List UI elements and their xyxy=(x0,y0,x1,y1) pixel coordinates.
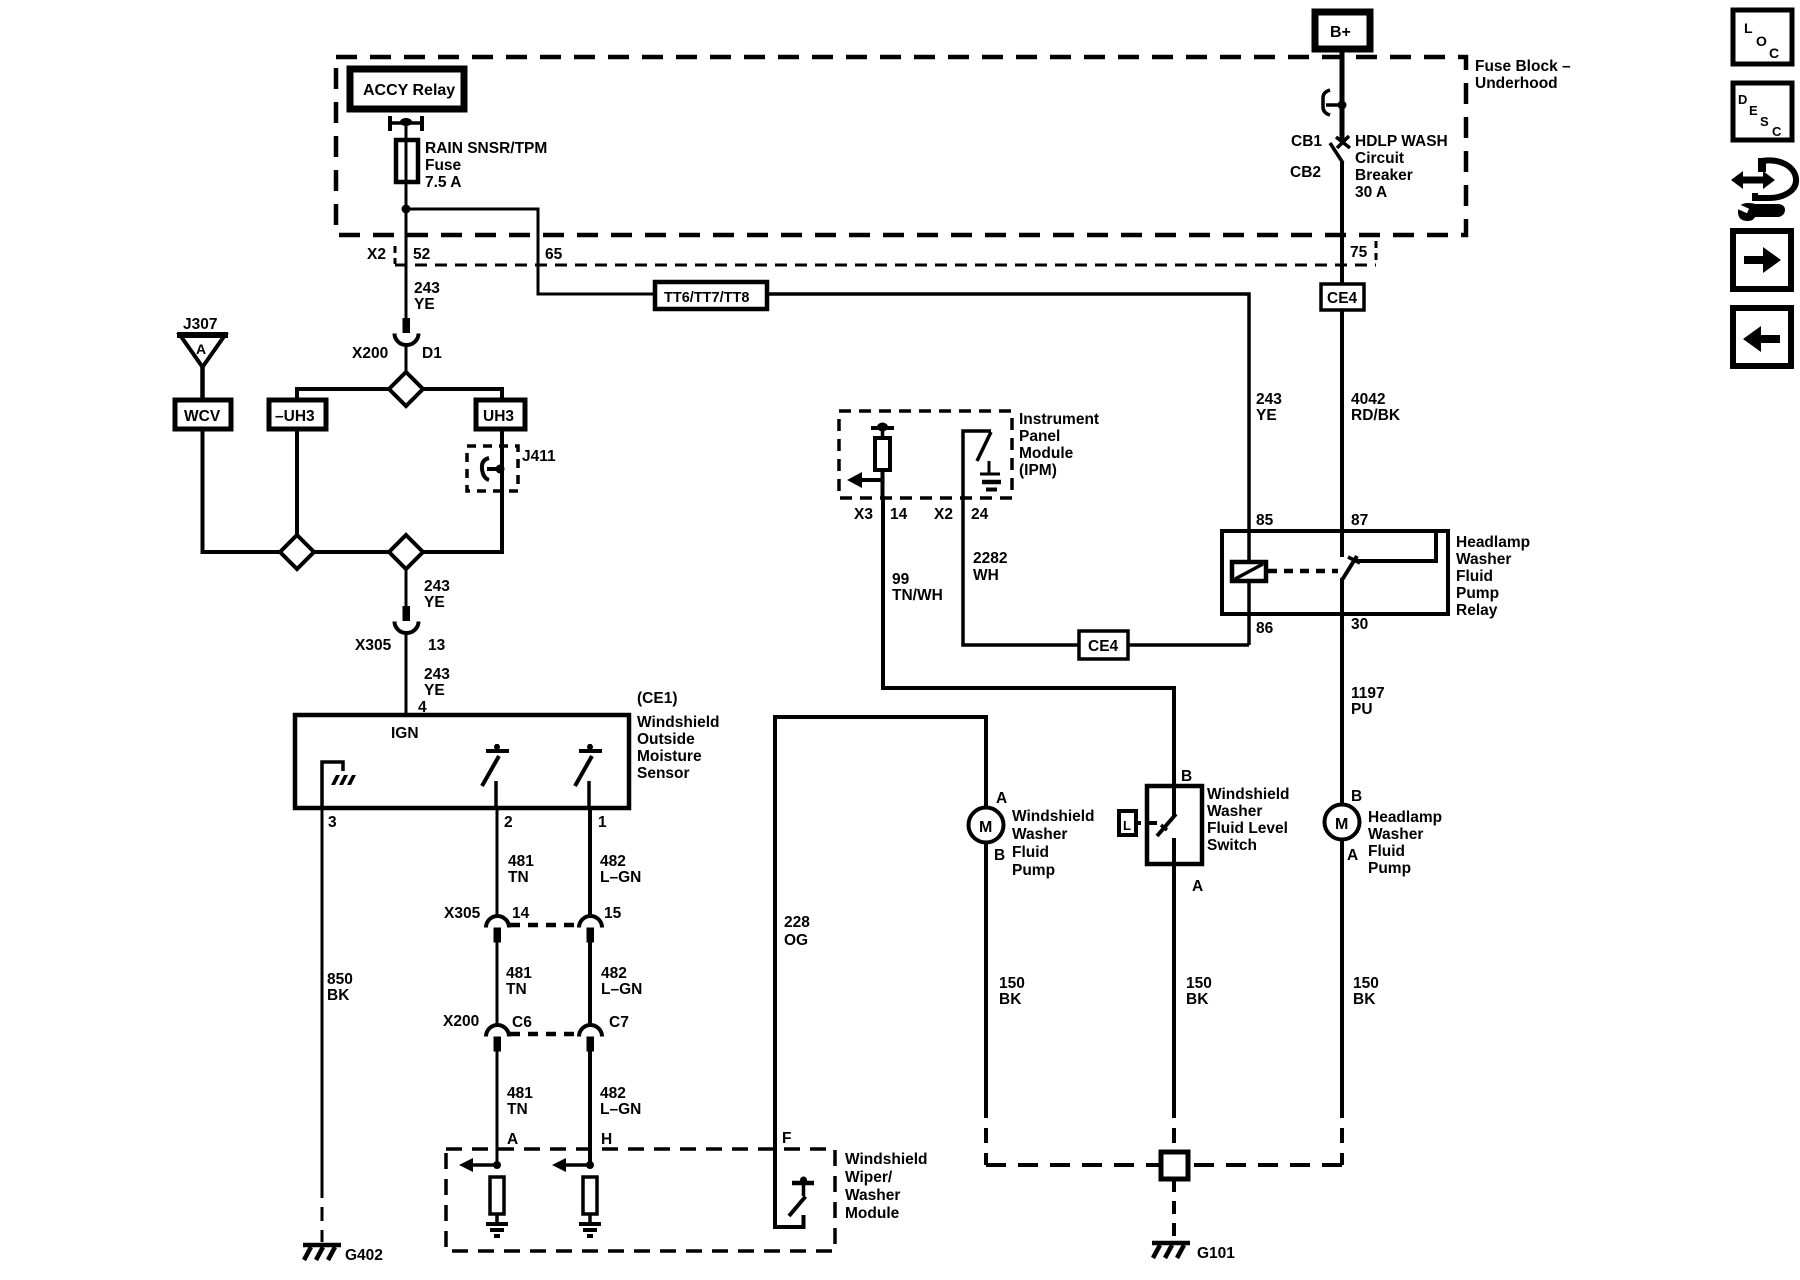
svg-text:99: 99 xyxy=(892,571,910,588)
svg-text:J411: J411 xyxy=(522,448,556,465)
svg-text:Fluid: Fluid xyxy=(1368,843,1405,860)
fuse block UH3 xyxy=(476,400,525,429)
IPM internal output arrow xyxy=(847,472,883,488)
IPM internal driver switch to ground xyxy=(963,431,1001,498)
inline connector X305 13 xyxy=(395,606,419,633)
module name label xyxy=(845,1151,928,1222)
svg-text:243: 243 xyxy=(424,578,450,595)
svg-text:482: 482 xyxy=(600,853,626,870)
svg-text:7.5 A: 7.5 A xyxy=(425,174,461,191)
svg-text:B+: B+ xyxy=(1330,24,1351,41)
svg-text:85: 85 xyxy=(1256,512,1274,529)
svg-text:A: A xyxy=(507,1131,518,1148)
IPM pin labels X3 14 X2 24 xyxy=(854,506,989,523)
svg-text:E: E xyxy=(1749,103,1758,118)
svg-text:CE4: CE4 xyxy=(1088,638,1119,655)
level switch internals xyxy=(1149,786,1176,864)
headlamp washer fluid pump relay box xyxy=(1222,531,1448,614)
wire label 243 YE middle xyxy=(1256,391,1282,424)
svg-text:B: B xyxy=(1181,768,1192,785)
connector X305 pair dashes xyxy=(510,923,578,928)
relay name label xyxy=(1456,534,1530,619)
svg-text:Sensor: Sensor xyxy=(637,765,690,782)
svg-text:Windshield: Windshield xyxy=(1207,786,1290,803)
wire relay pin 30 down xyxy=(1340,614,1344,805)
connector X200 pair dashes xyxy=(510,1032,578,1037)
connector X200 pin C7 xyxy=(579,1025,602,1052)
svg-text:30: 30 xyxy=(1351,616,1368,633)
svg-text:65: 65 xyxy=(545,246,563,263)
splice diamond top xyxy=(389,372,423,406)
icon prev-page left arrow box xyxy=(1733,308,1791,366)
svg-text:52: 52 xyxy=(413,246,430,263)
svg-text:UH3: UH3 xyxy=(483,408,514,425)
icon shortcut arrows and wrench xyxy=(1731,158,1796,221)
wire 2282 WH IPM X2-24 to CE4 xyxy=(963,498,1079,645)
wire 150 BK headlamp pump to ground xyxy=(1188,840,1379,1165)
wire label 243 YE below diamond xyxy=(424,578,450,611)
wire 481 TN middle xyxy=(497,942,532,1025)
svg-text:Pump: Pump xyxy=(1012,862,1055,879)
svg-text:13: 13 xyxy=(428,637,446,654)
svg-text:HDLP WASH: HDLP WASH xyxy=(1355,133,1448,150)
svg-text:481: 481 xyxy=(508,853,534,870)
ACCY Relay box xyxy=(350,69,464,109)
circuit breaker name HDLP WASH 30 A xyxy=(1355,133,1448,201)
wire junction to G101 xyxy=(1172,1179,1176,1240)
svg-text:Wiper/: Wiper/ xyxy=(845,1169,893,1186)
wire rail diamond to UH3 riser xyxy=(422,389,502,400)
relay coil to armature dashed link xyxy=(1268,569,1338,574)
svg-text:243: 243 xyxy=(414,280,440,297)
connector X200 pair labels xyxy=(443,1013,629,1031)
wire 482 L-GN sensor pin1 upper xyxy=(590,810,641,916)
wire TT6 to relay pin 85 xyxy=(767,294,1249,531)
svg-text:G101: G101 xyxy=(1197,1245,1235,1262)
windshield wiper washer module dashed box xyxy=(446,1149,835,1251)
svg-text:1197: 1197 xyxy=(1351,685,1385,702)
svg-text:482: 482 xyxy=(600,1085,626,1102)
svg-text:–UH3: –UH3 xyxy=(275,408,315,425)
splice pack TT6/TT7/TT8 xyxy=(655,282,767,309)
svg-text:481: 481 xyxy=(506,965,532,982)
level sensor L box xyxy=(1119,811,1141,835)
svg-text:O: O xyxy=(1756,33,1767,49)
svg-text:X305: X305 xyxy=(355,637,392,654)
svg-text:H: H xyxy=(601,1131,612,1148)
relay switch armature xyxy=(1342,531,1436,614)
svg-text:Outside: Outside xyxy=(637,731,695,748)
icon next-page right arrow box xyxy=(1733,231,1791,289)
svg-text:4042: 4042 xyxy=(1351,391,1385,408)
module internal F switch xyxy=(775,1149,814,1227)
svg-text:228: 228 xyxy=(784,914,810,931)
module pin labels A H F xyxy=(507,1130,791,1148)
svg-text:3: 3 xyxy=(328,814,337,831)
splice diamond lower-mid xyxy=(389,535,423,569)
svg-text:TT6/TT7/TT8: TT6/TT7/TT8 xyxy=(664,290,749,306)
svg-text:L: L xyxy=(1744,20,1753,36)
svg-text:WCV: WCV xyxy=(184,408,221,425)
wire 482 L-GN lower xyxy=(590,1051,641,1165)
svg-text:(CE1): (CE1) xyxy=(637,690,677,707)
svg-text:A: A xyxy=(996,790,1007,807)
svg-text:X2: X2 xyxy=(367,246,386,263)
svg-text:Fluid Level: Fluid Level xyxy=(1207,820,1288,837)
wire UH3 down through J411 xyxy=(423,429,502,552)
fuse RAIN SNSR/TPM 7.5 A xyxy=(396,140,418,182)
connector CE4 lower xyxy=(1079,631,1128,659)
wire relay contact to fuse xyxy=(405,123,408,140)
wire rail diamond to -UH3 riser xyxy=(297,389,390,400)
svg-text:481: 481 xyxy=(507,1085,533,1102)
fuse block underhood dashed box xyxy=(336,57,1466,235)
svg-text:30 A: 30 A xyxy=(1355,184,1387,201)
svg-text:Circuit: Circuit xyxy=(1355,150,1404,167)
svg-text:ACCY Relay: ACCY Relay xyxy=(363,82,455,99)
svg-text:Relay: Relay xyxy=(1456,602,1498,619)
ground G402 xyxy=(303,1245,383,1264)
connector CE4 top xyxy=(1321,265,1364,310)
svg-text:RAIN SNSR/TPM: RAIN SNSR/TPM xyxy=(425,140,547,157)
svg-text:L: L xyxy=(1123,818,1131,833)
IPM internal sensor element and resistor xyxy=(871,423,894,499)
wire fuse to junction xyxy=(405,182,408,265)
svg-text:PU: PU xyxy=(1351,701,1373,718)
svg-text:L–GN: L–GN xyxy=(600,1101,641,1118)
wire 481 TN lower xyxy=(497,1051,533,1165)
svg-text:A: A xyxy=(196,341,206,357)
svg-text:15: 15 xyxy=(604,905,622,922)
connector X305 pair labels xyxy=(444,905,622,922)
svg-text:14: 14 xyxy=(890,506,908,523)
wire 150 BK level switch to ground xyxy=(1174,864,1212,1152)
svg-text:B: B xyxy=(994,847,1005,864)
svg-text:2282: 2282 xyxy=(973,550,1007,567)
wire fuse branch through X2 pin 52 xyxy=(405,265,408,318)
svg-text:BK: BK xyxy=(327,987,350,1004)
svg-text:X2: X2 xyxy=(934,506,953,523)
svg-text:BK: BK xyxy=(1353,991,1376,1008)
svg-text:YE: YE xyxy=(424,682,445,699)
fuse label xyxy=(425,140,547,191)
svg-text:BK: BK xyxy=(999,991,1022,1008)
svg-text:TN/WH: TN/WH xyxy=(892,587,943,604)
svg-text:Fuse Block –: Fuse Block – xyxy=(1475,58,1571,75)
ground junction block xyxy=(1161,1152,1188,1179)
wire connector to splice diamond xyxy=(405,345,408,373)
wire rail between diamonds xyxy=(314,550,390,554)
svg-text:TN: TN xyxy=(507,1101,528,1118)
svg-text:Windshield: Windshield xyxy=(637,714,720,731)
circuit breaker labels xyxy=(1290,133,1322,181)
svg-text:M: M xyxy=(979,819,992,836)
svg-text:150: 150 xyxy=(999,975,1025,992)
fuse block -UH3 xyxy=(269,400,326,429)
svg-text:B: B xyxy=(1351,788,1362,805)
svg-text:Breaker: Breaker xyxy=(1355,167,1413,184)
svg-text:150: 150 xyxy=(1353,975,1379,992)
windshield outside moisture sensor box xyxy=(295,715,629,808)
svg-text:RD/BK: RD/BK xyxy=(1351,407,1401,424)
wire label 850 BK xyxy=(327,971,353,1004)
svg-text:Fluid: Fluid xyxy=(1012,844,1049,861)
wire diamond down to X305 xyxy=(405,569,408,606)
svg-text:850: 850 xyxy=(327,971,353,988)
svg-text:OG: OG xyxy=(784,932,808,949)
splice J307 triangle xyxy=(177,316,228,367)
svg-text:86: 86 xyxy=(1256,620,1274,637)
svg-text:2: 2 xyxy=(504,814,513,831)
module input A arrow and resistor to ground xyxy=(459,1158,508,1236)
svg-text:Washer: Washer xyxy=(1368,826,1423,843)
svg-text:A: A xyxy=(1192,878,1203,895)
wire 850 BK sensor pin3 to G402 xyxy=(321,810,324,1242)
circuit breaker blade xyxy=(1330,143,1343,163)
wire 228 OG washer pump to module F xyxy=(775,717,986,1149)
windshield washer fluid level switch box xyxy=(1147,786,1202,864)
icon LOC box xyxy=(1733,10,1792,64)
svg-text:G402: G402 xyxy=(345,1247,383,1264)
wire CE4 to relay pin 86 xyxy=(1128,614,1249,645)
svg-text:Washer: Washer xyxy=(845,1187,900,1204)
svg-text:14: 14 xyxy=(512,905,530,922)
wire 150 BK washer pump to ground xyxy=(986,843,1161,1165)
svg-text:Module: Module xyxy=(1019,445,1074,462)
svg-text:87: 87 xyxy=(1351,512,1368,529)
svg-text:482: 482 xyxy=(601,965,627,982)
splice diamond lower-left xyxy=(280,535,314,569)
svg-text:C7: C7 xyxy=(609,1014,629,1031)
ACCY relay contact symbol xyxy=(388,116,424,131)
svg-text:X200: X200 xyxy=(352,345,388,362)
headlamp washer fluid pump motor xyxy=(1325,805,1360,840)
svg-text:C: C xyxy=(1772,124,1782,139)
svg-text:YE: YE xyxy=(424,594,445,611)
svg-text:CE4: CE4 xyxy=(1327,290,1358,307)
circuit breaker CB1/CB2 thermal hook xyxy=(1323,90,1347,115)
module input H arrow and resistor to ground xyxy=(552,1158,601,1236)
svg-text:1: 1 xyxy=(598,814,607,831)
svg-text:Washer: Washer xyxy=(1207,803,1262,820)
battery terminal B+ xyxy=(1315,12,1370,49)
svg-text:Windshield: Windshield xyxy=(845,1151,928,1168)
washer pump name label xyxy=(1012,808,1095,879)
connector X2 labels xyxy=(367,244,1368,263)
svg-text:243: 243 xyxy=(424,666,450,683)
relay coil xyxy=(1232,531,1266,614)
connector X305 pin 15 xyxy=(579,916,602,943)
IPM name label xyxy=(1019,411,1099,479)
svg-text:CB1: CB1 xyxy=(1291,133,1322,150)
connector X200 D1 labels xyxy=(352,345,442,362)
svg-text:YE: YE xyxy=(1256,407,1277,424)
svg-text:Headlamp: Headlamp xyxy=(1368,809,1442,826)
connector X305 13 labels xyxy=(355,637,446,654)
svg-text:F: F xyxy=(782,1130,791,1147)
inline connector X200 D1 xyxy=(395,318,419,345)
svg-text:A: A xyxy=(1347,847,1358,864)
wire label 243 YE left xyxy=(414,280,440,313)
wire label 243 YE above sensor xyxy=(424,666,450,699)
svg-text:X305: X305 xyxy=(444,905,481,922)
svg-text:CB2: CB2 xyxy=(1290,164,1321,181)
pin 4 label xyxy=(418,699,427,716)
wire X305 to sensor pin 4 xyxy=(405,633,408,715)
sensor internal switch pin 2 xyxy=(482,744,509,810)
wire -UH3 down to diamond xyxy=(295,429,299,536)
svg-text:Module: Module xyxy=(845,1205,900,1222)
svg-text:Windshield: Windshield xyxy=(1012,808,1095,825)
svg-text:Fuse: Fuse xyxy=(425,157,462,174)
level switch name label xyxy=(1207,786,1290,854)
svg-text:Washer: Washer xyxy=(1456,551,1511,568)
wire CE4 to relay pin 87 xyxy=(1340,310,1344,531)
junction node below fuse xyxy=(402,205,411,214)
svg-text:Instrument: Instrument xyxy=(1019,411,1099,428)
windshield washer fluid pump motor xyxy=(969,808,1004,843)
svg-text:Pump: Pump xyxy=(1368,860,1411,877)
svg-text:X200: X200 xyxy=(443,1013,479,1030)
sensor internal ground elbow xyxy=(322,762,356,810)
wire breaker to CE4 pin 75 xyxy=(1340,162,1344,284)
svg-text:243: 243 xyxy=(1256,391,1282,408)
sensor name label xyxy=(637,690,720,782)
svg-text:24: 24 xyxy=(971,506,989,523)
wire 99 TN/WH IPM X3-14 to level switch B xyxy=(883,498,1174,786)
svg-text:IGN: IGN xyxy=(391,725,419,742)
svg-text:Panel: Panel xyxy=(1019,428,1060,445)
svg-text:S: S xyxy=(1760,114,1769,129)
level switch pin labels xyxy=(1181,768,1203,895)
instrument panel module IPM dashed box xyxy=(839,411,1012,498)
svg-text:75: 75 xyxy=(1350,244,1368,261)
svg-text:L–GN: L–GN xyxy=(600,869,641,886)
wire J307 to WCV xyxy=(200,367,205,400)
wire 482 L-GN middle xyxy=(590,942,642,1025)
connector X2 dashed line xyxy=(395,241,1376,265)
svg-text:D: D xyxy=(1738,92,1747,107)
wire label 4042 RD/BK xyxy=(1351,391,1401,424)
wire branch junction to pin 65 xyxy=(406,209,655,294)
svg-text:TN: TN xyxy=(506,981,527,998)
svg-text:M: M xyxy=(1335,816,1348,833)
svg-text:(IPM): (IPM) xyxy=(1019,462,1057,479)
svg-text:D1: D1 xyxy=(422,345,442,362)
svg-text:Moisture: Moisture xyxy=(637,748,702,765)
sensor internal switch pin 1 xyxy=(575,744,602,810)
svg-text:150: 150 xyxy=(1186,975,1212,992)
wire label 1197 PU xyxy=(1351,685,1385,718)
fuse block label xyxy=(1475,58,1571,92)
svg-text:Pump: Pump xyxy=(1456,585,1499,602)
svg-text:L–GN: L–GN xyxy=(601,981,642,998)
svg-text:C6: C6 xyxy=(512,1014,532,1031)
svg-text:Headlamp: Headlamp xyxy=(1456,534,1530,551)
connector X200 pin C6 xyxy=(486,1025,509,1052)
svg-text:J307: J307 xyxy=(183,316,217,333)
svg-text:BK: BK xyxy=(1186,991,1209,1008)
wire B+ to circuit breaker xyxy=(1340,49,1345,141)
circuit breaker contact star xyxy=(1336,136,1350,148)
svg-text:Fluid: Fluid xyxy=(1456,568,1493,585)
svg-text:WH: WH xyxy=(973,567,999,584)
ground G101 xyxy=(1152,1243,1235,1262)
svg-text:TN: TN xyxy=(508,869,529,886)
washer pump pin labels xyxy=(994,790,1007,864)
sensor pin labels xyxy=(328,814,607,831)
headlamp pump pin labels xyxy=(1347,788,1362,864)
svg-text:Switch: Switch xyxy=(1207,837,1257,854)
icon DESC box xyxy=(1733,83,1792,140)
relay pin labels xyxy=(1256,512,1368,637)
splice J411 dashed box xyxy=(467,446,556,491)
svg-text:C: C xyxy=(1769,45,1779,61)
svg-text:X3: X3 xyxy=(854,506,873,523)
svg-text:Washer: Washer xyxy=(1012,826,1067,843)
connector X305 pin 14 xyxy=(486,916,509,943)
headlamp pump name label xyxy=(1368,809,1442,877)
svg-text:YE: YE xyxy=(414,296,435,313)
wire WCV down to rail xyxy=(203,429,282,552)
svg-text:Underhood: Underhood xyxy=(1475,75,1558,92)
fuse block WCV xyxy=(175,400,231,429)
wire 481 TN sensor pin2 upper xyxy=(497,810,534,916)
